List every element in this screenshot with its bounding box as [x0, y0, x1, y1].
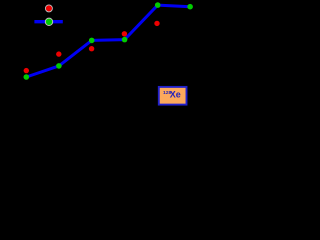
- legend green marker: [45, 18, 52, 25]
- red point R5: [154, 21, 159, 26]
- legend line sample: [34, 20, 62, 23]
- red point R1: [24, 68, 29, 73]
- green point P3: [89, 38, 95, 44]
- svg-text:Xe: Xe: [170, 89, 181, 99]
- green point P5: [155, 2, 161, 8]
- red point R4: [122, 31, 127, 36]
- green point P4: [122, 37, 128, 43]
- red point R3: [89, 46, 94, 51]
- green point P2: [56, 63, 62, 69]
- green point P6: [187, 4, 193, 10]
- green point P1: [24, 74, 30, 80]
- red point R2: [56, 51, 61, 56]
- data polyline: [26, 5, 190, 77]
- isotope label box: [159, 87, 187, 105]
- legend red marker: [45, 5, 52, 12]
